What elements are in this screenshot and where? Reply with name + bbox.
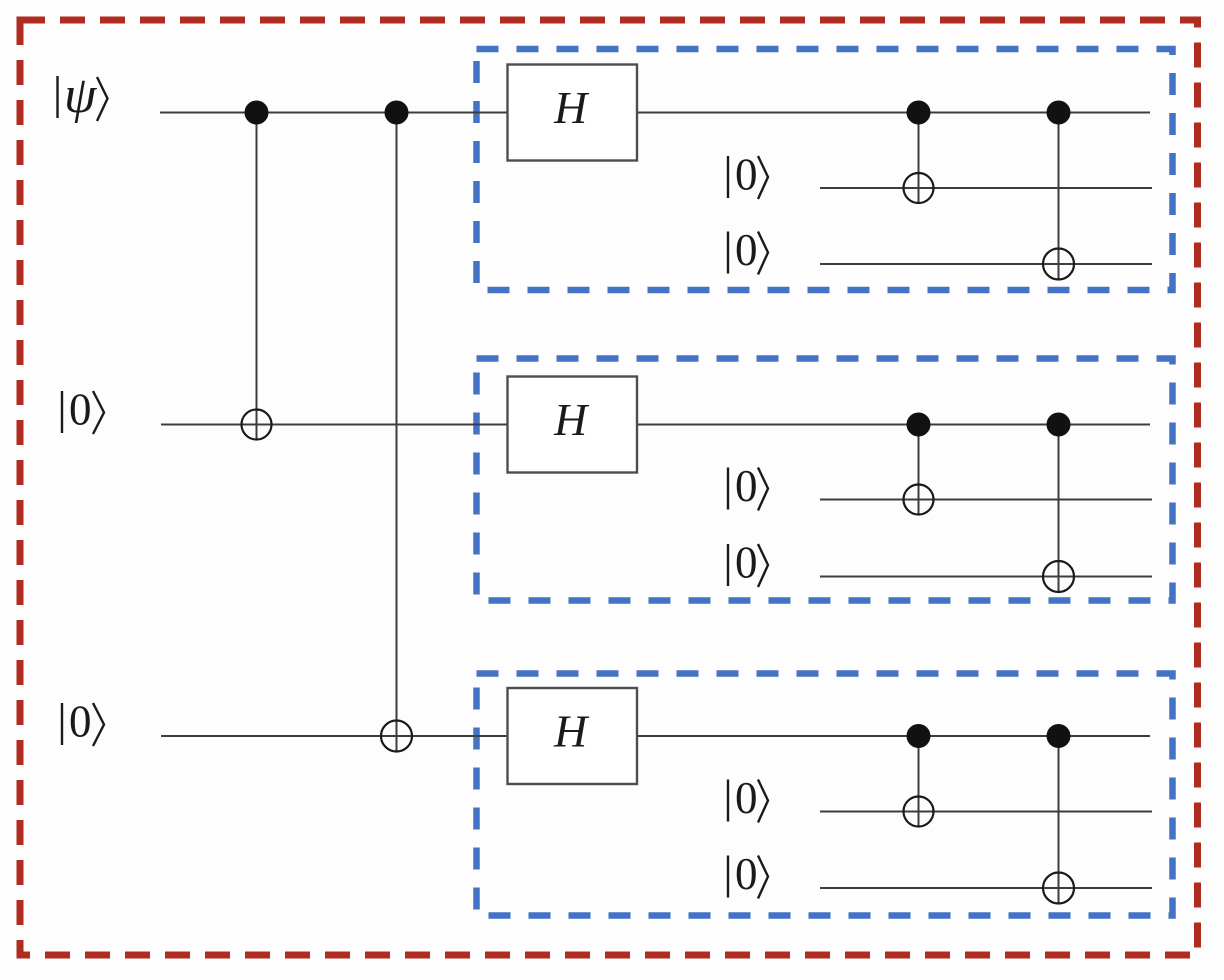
label ket 0 (qubit 2) xyxy=(62,385,104,435)
svg-text:0: 0 xyxy=(735,773,758,823)
svg-text:0: 0 xyxy=(735,849,758,899)
block 3 CNOT b target xyxy=(1043,873,1074,904)
block 1 ancilla b label ket 0 xyxy=(728,225,768,275)
blue dashed box block 3 xyxy=(477,674,1173,916)
block 2 CNOT a vertical wire xyxy=(918,425,920,515)
label ket 0 (qubit 3) xyxy=(62,697,104,747)
svg-text:ψ: ψ xyxy=(64,67,98,124)
block 3 CNOT a vertical wire xyxy=(918,736,920,827)
svg-text:0: 0 xyxy=(69,385,92,435)
block 3 ancilla b wire xyxy=(820,887,1152,889)
CNOT 1 control dot on q1 xyxy=(245,101,269,125)
block 3 ancilla a label ket 0 xyxy=(728,773,768,823)
label ket psi (qubit 1) xyxy=(58,67,108,124)
CNOT 2 control dot on q1 xyxy=(385,101,409,125)
H gate block 2 xyxy=(508,377,638,473)
block 1 CNOT a control dot xyxy=(907,101,931,125)
svg-text:0: 0 xyxy=(69,697,92,747)
wire q2 left segment xyxy=(161,424,508,426)
svg-text:H: H xyxy=(553,394,590,445)
svg-text:0: 0 xyxy=(735,150,758,200)
block 3 CNOT b vertical wire xyxy=(1058,736,1060,903)
blue dashed box block 1 xyxy=(477,49,1173,290)
block 1 ancilla a wire xyxy=(820,187,1152,189)
svg-text:H: H xyxy=(553,82,590,133)
CNOT 1 target on q2 xyxy=(242,410,272,440)
block 2 ancilla a label ket 0 xyxy=(728,461,768,511)
CNOT 2 target on q3 xyxy=(381,721,412,752)
block 3 CNOT a control dot xyxy=(907,724,931,748)
wire q1 left segment xyxy=(160,112,508,114)
svg-text:0: 0 xyxy=(735,461,758,511)
H gate block 3 xyxy=(508,688,638,784)
block 1 ancilla b wire xyxy=(820,263,1152,265)
block 2 ancilla b label ket 0 xyxy=(728,538,768,588)
block 3 CNOT a target xyxy=(904,797,934,827)
block 1 CNOT b control dot xyxy=(1047,101,1071,125)
blue dashed box block 2 xyxy=(477,359,1173,601)
svg-text:H: H xyxy=(553,706,590,757)
svg-text:0: 0 xyxy=(735,538,758,588)
block 3 CNOT b control dot xyxy=(1047,724,1071,748)
wire q2 right segment xyxy=(637,424,1150,426)
CNOT 1 vertical wire (q1 to q2) xyxy=(256,113,258,440)
block 2 ancilla a wire xyxy=(820,499,1152,501)
block 2 CNOT b control dot xyxy=(1047,413,1071,437)
CNOT 2 vertical wire (q1 to q3) xyxy=(396,113,398,752)
wire q3 right segment xyxy=(637,735,1150,737)
block 1 CNOT a vertical wire xyxy=(918,113,920,204)
block 3 ancilla b label ket 0 xyxy=(728,849,768,899)
block 1 ancilla a label ket 0 xyxy=(728,150,768,200)
block 2 CNOT b target xyxy=(1043,561,1074,592)
H gate block 1 xyxy=(508,65,638,161)
wire q3 left segment xyxy=(161,735,508,737)
block 2 ancilla b wire xyxy=(820,576,1152,578)
svg-text:0: 0 xyxy=(735,225,758,275)
wire q1 right segment xyxy=(637,112,1150,114)
block 2 CNOT b vertical wire xyxy=(1058,425,1060,592)
block 1 CNOT a target xyxy=(904,173,934,203)
block 3 ancilla a wire xyxy=(820,811,1152,813)
block 2 CNOT a target xyxy=(904,485,934,515)
block 2 CNOT a control dot xyxy=(907,413,931,437)
block 1 CNOT b target xyxy=(1043,249,1074,280)
block 1 CNOT b vertical wire xyxy=(1058,113,1060,280)
